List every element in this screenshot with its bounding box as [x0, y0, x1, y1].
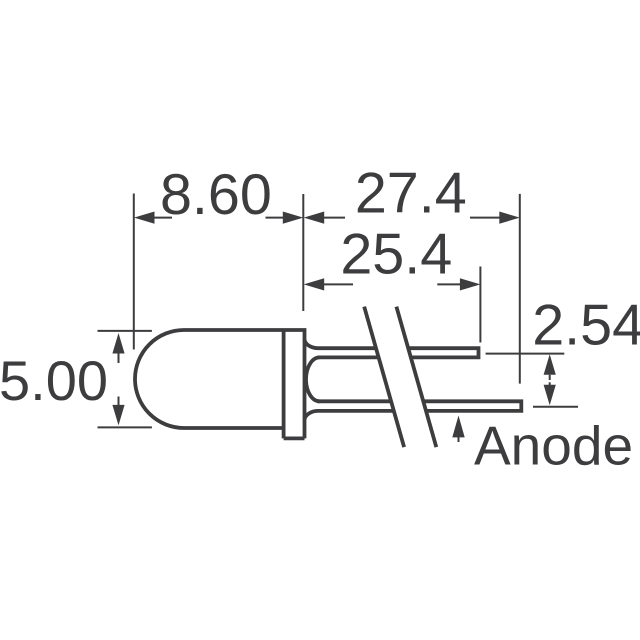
extension line right of 25.4 [479, 267, 481, 343]
dimension line 27.4 left segment [321, 217, 345, 219]
arrowhead 5.00 down [112, 405, 124, 426]
extension line right of 27.4 [519, 194, 521, 384]
arrowhead 8.60 right [283, 212, 304, 224]
lead frame bottom fillet [305, 411, 319, 420]
lead break gap [364, 307, 436, 448]
cathode lead (top) [318, 348, 479, 357]
svg-text:5.00: 5.00 [0, 349, 108, 412]
dimension line 8.60 right segment [266, 217, 287, 219]
svg-text:8.60: 8.60 [160, 163, 272, 227]
dimension line 25.4 right segment [437, 283, 462, 285]
dimension line 25.4 left segment [321, 283, 353, 285]
extension line 2.54 bottom [533, 406, 578, 408]
extension line 5.00 top [98, 330, 152, 332]
arrowhead 27.4 left [304, 212, 325, 224]
LED body bottom edge [184, 426, 284, 430]
svg-text:27.4: 27.4 [355, 162, 467, 226]
LED body top edge [184, 328, 306, 332]
dimension line 5.00 lower segment [118, 397, 120, 409]
arrowhead 2.54 down [544, 385, 556, 406]
dimension line 27.4 right segment [470, 217, 502, 219]
extension line left of 8.60 [133, 194, 135, 350]
arrowhead 25.4 left [304, 278, 325, 290]
arrowhead 5.00 up [112, 333, 124, 354]
svg-text:2.54: 2.54 [532, 293, 640, 357]
dimension line 2.54 upper segment [549, 375, 551, 380]
lead frame top fillet [305, 339, 319, 348]
svg-text:Anode: Anode [474, 415, 633, 477]
arrowhead 8.60 left [134, 212, 155, 224]
dimension line 5.00 upper segment [118, 350, 120, 363]
extension line 2.54 top [486, 353, 565, 355]
svg-text:25.4: 25.4 [340, 223, 452, 287]
dimension line 2.54 lower segment [549, 382, 551, 387]
break slash 2 [396, 307, 436, 448]
LED body dome [135, 330, 184, 428]
shared extension line 8.60/27.4/25.4 [302, 194, 304, 311]
extension line 5.00 bottom [98, 426, 152, 428]
arrowhead 27.4 right [499, 212, 520, 224]
arch between leads [306, 357, 320, 401]
anode lead (bottom) [318, 401, 522, 411]
LED flange [284, 331, 305, 438]
break slash 1 [364, 307, 404, 448]
anode arrow tail [458, 435, 460, 442]
arrowhead 2.54 up [544, 354, 556, 375]
anode arrowhead [452, 416, 464, 438]
arrowhead 25.4 right [460, 278, 481, 290]
dimension line 8.60 left segment [152, 217, 172, 219]
